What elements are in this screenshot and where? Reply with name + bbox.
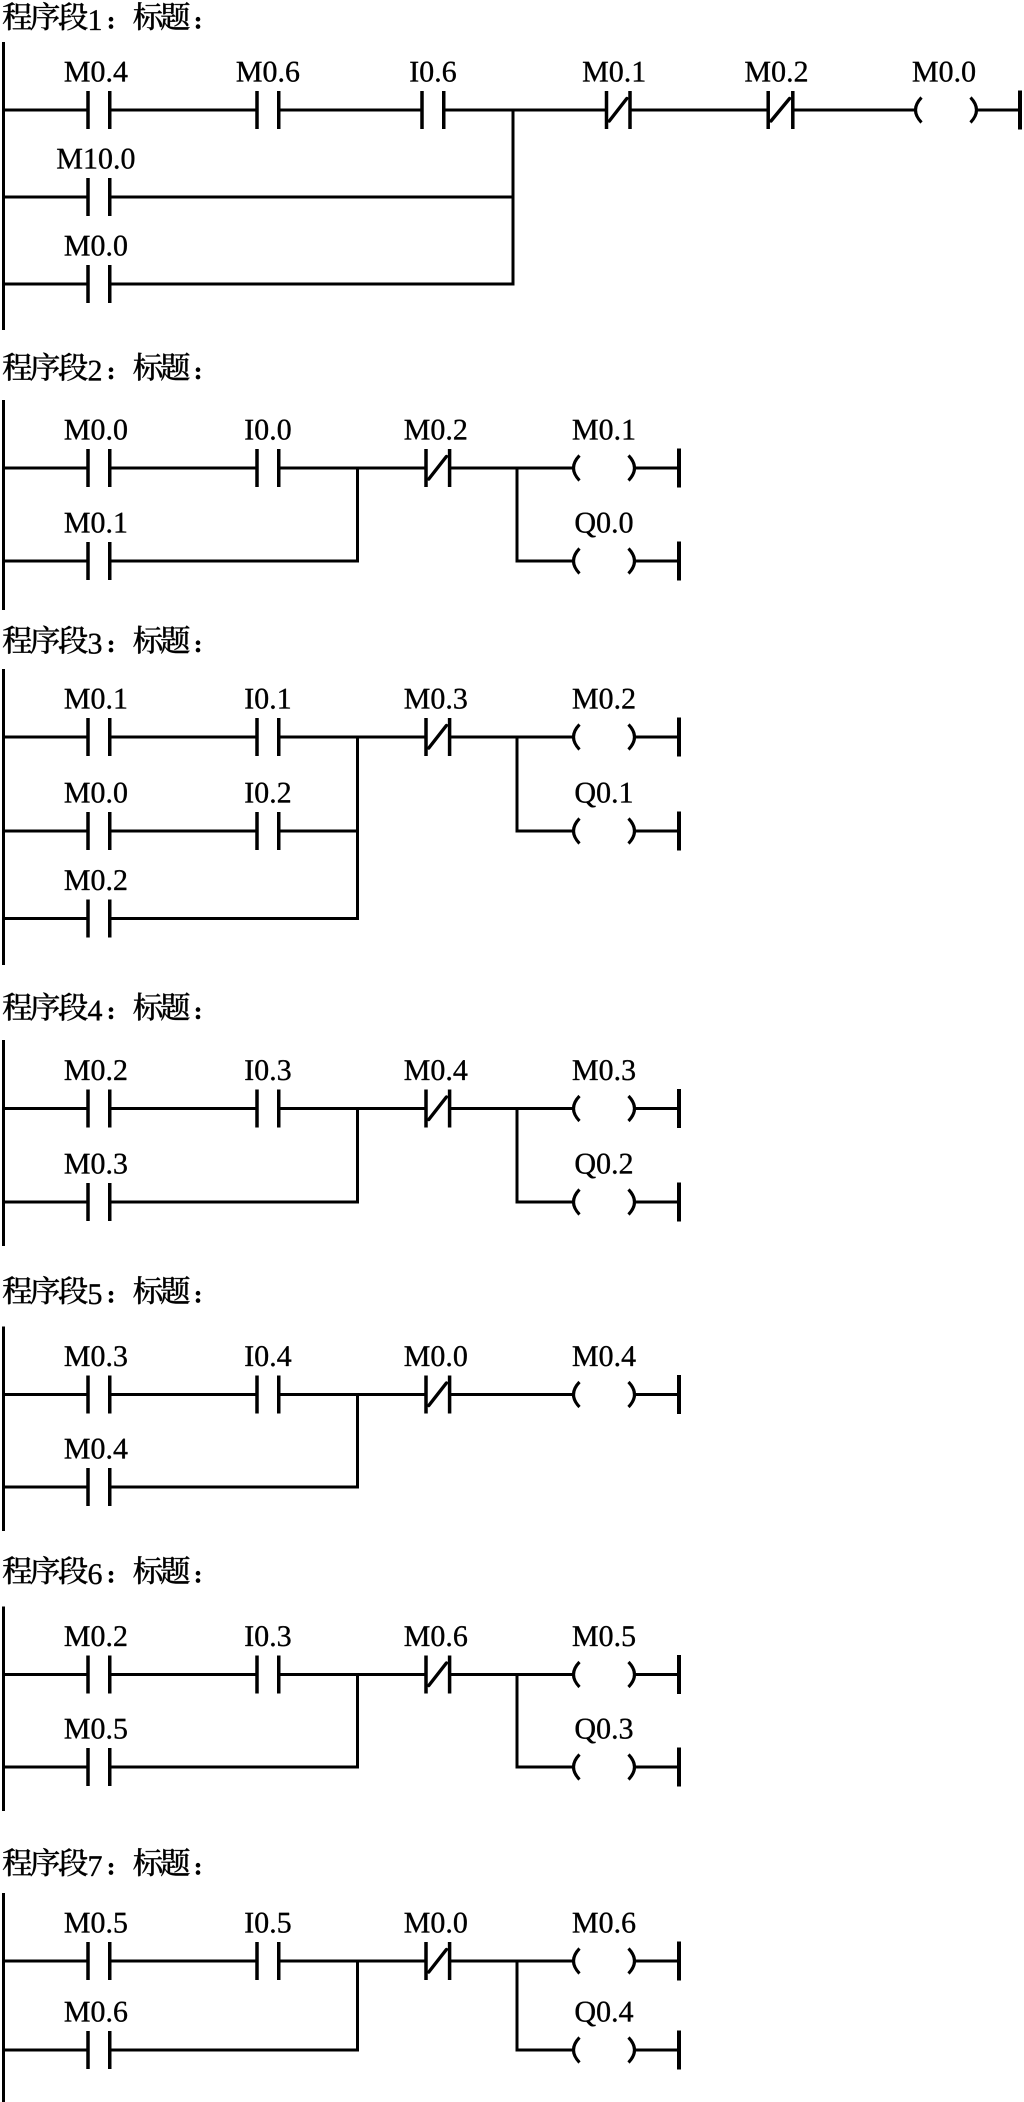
NO contact M0.2 — [86, 1656, 111, 1694]
NO contact M0.4 — [86, 1468, 111, 1506]
network 2 header 程序段2：标题： — [3, 353, 200, 381]
right rail terminal N1 row 1 — [1018, 91, 1022, 130]
label M0.2 (contact M0.2) — [65, 1060, 127, 1080]
network 3 header 程序段3：标题： — [3, 626, 200, 654]
wire N3 OR-branch junction vertical — [356, 736, 359, 921]
label M0.5 (coil M0.5) — [573, 1626, 635, 1646]
wire N6 I0.3 to M0.6 through junction — [279, 1673, 426, 1676]
wire N3 M0.2 branch to junction — [110, 917, 359, 920]
label M10.0 (contact M10.0) — [57, 149, 134, 169]
label M0.5 (contact M0.5) — [65, 1913, 127, 1933]
wire N2 M0.1 branch to junction — [110, 560, 359, 563]
right rail terminal N3 row 1 — [677, 718, 681, 757]
wire N1 M0.6 to I0.6 — [279, 109, 422, 112]
coil M0.3 — [574, 1096, 635, 1121]
NO contact M0.4 — [86, 91, 111, 129]
wire N7 rail to M0.5 — [2, 1960, 88, 1963]
NO contact M0.6 — [86, 2031, 111, 2069]
wire N5 M0.4 branch to junction — [110, 1486, 359, 1489]
wire N7 coil Q0.4 to right terminal — [636, 2049, 678, 2052]
wire N4 rail to M0.3 — [2, 1201, 88, 1204]
wire N2 coil M0.1 to right terminal — [636, 467, 678, 470]
wire N3 I0.2 branch to junction — [279, 830, 359, 833]
NC contact M0.0 — [424, 1376, 451, 1414]
NO contact I0.3 — [255, 1090, 280, 1128]
wire N7 OR-branch junction vertical — [356, 1960, 359, 2052]
right rail terminal N4 row 1 — [677, 1089, 681, 1128]
label I0.3 (contact I0.3) — [245, 1060, 290, 1080]
NC contact M0.6 — [424, 1656, 451, 1694]
wire N3 branch to coil Q0.1 — [516, 830, 573, 833]
wire N1 M0.0 branch to junction — [110, 283, 515, 286]
wire N4 M0.2 to I0.3 — [110, 1107, 257, 1110]
wire N1 M10.0 branch to junction — [110, 196, 515, 199]
wire N4 branch to coil Q0.2 — [516, 1201, 573, 1204]
wire N6 OR-branch junction vertical — [356, 1673, 359, 1769]
NO contact M0.5 — [86, 1748, 111, 1786]
coil Q0.3 — [574, 1755, 635, 1780]
label M0.0 (contact M0.0) — [65, 420, 127, 440]
network 5 left power rail — [2, 1327, 5, 1532]
wire N2 M0.0 to I0.0 — [110, 467, 257, 470]
label M0.6 (contact M0.6) — [405, 1626, 467, 1646]
label M0.4 (coil M0.4) — [573, 1346, 636, 1366]
wire N6 branch to coil Q0.3 — [516, 1766, 573, 1769]
label M0.0 (contact M0.0) — [405, 1346, 467, 1366]
wire N6 coil Q0.3 to right terminal — [636, 1766, 678, 1769]
NO contact I0.2 — [255, 812, 280, 850]
NO contact M0.3 — [86, 1376, 111, 1414]
label M0.0 (contact M0.0) — [65, 783, 127, 803]
wire N5 OR-branch junction vertical — [356, 1393, 359, 1489]
wire N1 rail to M0.4 — [2, 109, 88, 112]
coil Q0.0 — [574, 549, 635, 574]
network 3 left power rail — [2, 669, 5, 965]
wire N1 M0.4 to M0.6 — [110, 109, 257, 112]
wire N2 I0.0 to M0.2 through junction — [279, 467, 426, 470]
label M0.6 (contact M0.6) — [65, 2002, 127, 2022]
wire N4 rail to M0.2 — [2, 1107, 88, 1110]
network 7 header 程序段7：标题： — [3, 1848, 200, 1876]
wire N6 M0.2 to I0.3 — [110, 1673, 257, 1676]
NO contact I0.3 — [255, 1656, 280, 1694]
right rail terminal N4 row 2 — [677, 1183, 681, 1222]
label Q0.2 (coil Q0.2) — [576, 1154, 632, 1179]
NO contact I0.6 — [420, 91, 445, 129]
wire N4 I0.3 to M0.4 through junction — [279, 1107, 426, 1110]
NO contact M0.1 — [86, 542, 111, 580]
label Q0.0 (coil Q0.0) — [576, 513, 633, 538]
wire N5 M0.3 to I0.4 — [110, 1393, 257, 1396]
wire N1 OR-branch junction vertical — [512, 109, 515, 286]
label M0.3 (coil M0.3) — [573, 1060, 635, 1080]
wire N7 coil M0.6 to right terminal — [636, 1960, 678, 1963]
wire N7 M0.5 to I0.5 — [110, 1960, 257, 1963]
NO contact M0.0 — [86, 449, 111, 487]
NO contact M0.1 — [86, 718, 111, 756]
wire N6 rail to M0.5 — [2, 1766, 88, 1769]
label M0.4 (contact M0.4) — [65, 62, 128, 82]
label I0.4 (contact I0.4) — [245, 1346, 291, 1366]
wire N6 M0.6 to coil M0.5 — [450, 1673, 573, 1676]
wire N1 rail to M0.0 — [2, 283, 88, 286]
wire N3 M0.1 to I0.1 — [110, 736, 257, 739]
wire N7 M0.0 to coil M0.6 — [450, 1960, 573, 1963]
label M0.1 (contact M0.1) — [583, 62, 645, 82]
label M0.3 (contact M0.3) — [405, 689, 467, 709]
coil M0.2 — [574, 725, 635, 750]
label Q0.1 (coil Q0.1) — [576, 783, 632, 808]
NC contact M0.0 — [424, 1942, 451, 1980]
NO contact M10.0 — [86, 178, 111, 216]
wire N4 output branch vertical — [516, 1107, 519, 1204]
NC contact M0.2 — [766, 91, 794, 129]
label M0.4 (contact M0.4) — [65, 1439, 128, 1459]
label I0.1 (contact I0.1) — [245, 689, 290, 709]
label M0.0 (coil M0.0) — [913, 62, 975, 82]
wire N3 rail to M0.0 — [2, 830, 88, 833]
network 1 left power rail — [2, 42, 5, 330]
wire N5 I0.4 to M0.0 through junction — [279, 1393, 426, 1396]
wire N4 M0.3 branch to junction — [110, 1201, 359, 1204]
wire N1 I0.6 to M0.1 through junction — [444, 109, 607, 112]
label I0.6 (contact I0.6) — [410, 62, 456, 82]
wire N4 M0.4 to coil M0.3 — [450, 1107, 573, 1110]
wire N2 branch to coil Q0.0 — [516, 560, 573, 563]
coil M0.1 — [574, 456, 635, 481]
label I0.5 (contact I0.5) — [245, 1913, 290, 1933]
wire N3 M0.3 to coil M0.2 — [450, 736, 573, 739]
network 1 header 程序段1：标题： — [3, 2, 200, 30]
wire N3 M0.0 to I0.2 — [110, 830, 257, 833]
label M0.6 (contact M0.6) — [237, 62, 299, 82]
NO contact M0.2 — [86, 900, 111, 938]
NO contact I0.0 — [255, 449, 280, 487]
NC contact M0.3 — [424, 718, 451, 756]
wire N4 coil Q0.2 to right terminal — [636, 1201, 678, 1204]
label M0.0 (contact M0.0) — [405, 1913, 467, 1933]
network 4 header 程序段4：标题： — [3, 992, 200, 1020]
wire N7 output branch vertical — [516, 1960, 519, 2052]
NO contact M0.6 — [255, 91, 280, 129]
wire N3 rail to M0.2 — [2, 917, 88, 920]
label M0.1 (contact M0.1) — [65, 689, 127, 709]
NO contact M0.0 — [86, 265, 111, 303]
coil M0.6 — [574, 1949, 635, 1974]
NO contact I0.5 — [255, 1942, 280, 1980]
right rail terminal N6 row 1 — [677, 1655, 681, 1694]
coil M0.5 — [574, 1662, 635, 1687]
NO contact M0.2 — [86, 1090, 111, 1128]
label M0.0 (contact M0.0) — [65, 236, 127, 256]
label M0.3 (contact M0.3) — [65, 1346, 127, 1366]
label M0.6 (coil M0.6) — [573, 1913, 635, 1933]
coil Q0.4 — [574, 2038, 635, 2063]
label M0.4 (contact M0.4) — [405, 1060, 468, 1080]
label M0.2 (contact M0.2) — [65, 1626, 127, 1646]
label Q0.3 (coil Q0.3) — [576, 1719, 633, 1744]
label M0.2 (coil M0.2) — [573, 689, 635, 709]
NC contact M0.2 — [424, 449, 451, 487]
right rail terminal N2 row 1 — [677, 449, 681, 488]
wire N1 coil to right terminal — [978, 109, 1019, 112]
NC contact M0.4 — [424, 1090, 451, 1128]
wire N3 coil Q0.1 to right terminal — [636, 830, 678, 833]
wire N5 coil M0.4 to right terminal — [636, 1393, 678, 1396]
network 4 left power rail — [2, 1040, 5, 1246]
wire N2 rail to M0.1 — [2, 560, 88, 563]
label I0.0 (contact I0.0) — [245, 420, 290, 440]
wire N7 I0.5 to M0.0 through junction — [279, 1960, 426, 1963]
wire N3 rail to M0.1 — [2, 736, 88, 739]
wire N4 OR-branch junction vertical — [356, 1107, 359, 1204]
wire N2 coil Q0.0 to right terminal — [636, 560, 678, 563]
wire N2 output branch vertical — [516, 467, 519, 563]
right rail terminal N7 row 2 — [677, 2031, 681, 2070]
wire N6 rail to M0.2 — [2, 1673, 88, 1676]
wire N7 M0.6 branch to junction — [110, 2049, 359, 2052]
network 6 left power rail — [2, 1607, 5, 1812]
coil M0.0 — [916, 98, 977, 123]
wire N1 M0.2 to coil M0.0 — [793, 109, 915, 112]
wire N7 rail to M0.6 — [2, 2049, 88, 2052]
coil Q0.2 — [574, 1190, 635, 1215]
right rail terminal N7 row 1 — [677, 1942, 681, 1981]
wire N2 rail to M0.0 — [2, 467, 88, 470]
label M0.5 (contact M0.5) — [65, 1719, 127, 1739]
NO contact M0.5 — [86, 1942, 111, 1980]
NC contact M0.1 — [605, 91, 632, 129]
label M0.2 (contact M0.2) — [65, 870, 127, 890]
NO contact M0.3 — [86, 1183, 111, 1221]
coil Q0.1 — [574, 819, 635, 844]
label I0.3 (contact I0.3) — [245, 1626, 290, 1646]
right rail terminal N6 row 2 — [677, 1748, 681, 1787]
NO contact I0.4 — [255, 1376, 280, 1414]
wire N5 rail to M0.3 — [2, 1393, 88, 1396]
network 5 header 程序段5：标题： — [3, 1276, 200, 1304]
wire N3 output branch vertical — [516, 736, 519, 833]
label M0.1 (coil M0.1) — [573, 420, 635, 440]
wire N6 coil M0.5 to right terminal — [636, 1673, 678, 1676]
right rail terminal N2 row 2 — [677, 542, 681, 581]
NO contact I0.1 — [255, 718, 280, 756]
label M0.1 (contact M0.1) — [65, 513, 127, 533]
network 2 left power rail — [2, 400, 5, 610]
label I0.2 (contact I0.2) — [245, 783, 290, 803]
wire N3 I0.1 to M0.3 through junction — [279, 736, 426, 739]
label M0.2 (contact M0.2) — [405, 420, 467, 440]
wire N6 output branch vertical — [516, 1673, 519, 1769]
wire N3 coil M0.2 to right terminal — [636, 736, 678, 739]
right rail terminal N5 row 1 — [677, 1375, 681, 1414]
wire N5 M0.0 to coil M0.4 — [450, 1393, 573, 1396]
wire N4 coil M0.3 to right terminal — [636, 1107, 678, 1110]
wire N5 rail to M0.4 — [2, 1486, 88, 1489]
network 6 header 程序段6：标题： — [3, 1556, 200, 1584]
wire N1 M0.1 to M0.2 — [630, 109, 768, 112]
wire N6 M0.5 branch to junction — [110, 1766, 359, 1769]
wire N7 branch to coil Q0.4 — [516, 2049, 573, 2052]
wire N2 OR-branch junction vertical — [356, 467, 359, 563]
right rail terminal N3 row 2 — [677, 812, 681, 851]
wire N1 rail to M10.0 — [2, 196, 88, 199]
network 7 left power rail — [2, 1893, 5, 2102]
label M0.2 (contact M0.2) — [745, 62, 807, 82]
wire N2 M0.2 to coil M0.1 — [450, 467, 573, 470]
label M0.3 (contact M0.3) — [65, 1154, 127, 1174]
coil M0.4 — [574, 1382, 635, 1407]
NO contact M0.0 — [86, 812, 111, 850]
label Q0.4 (coil Q0.4) — [576, 2002, 633, 2027]
